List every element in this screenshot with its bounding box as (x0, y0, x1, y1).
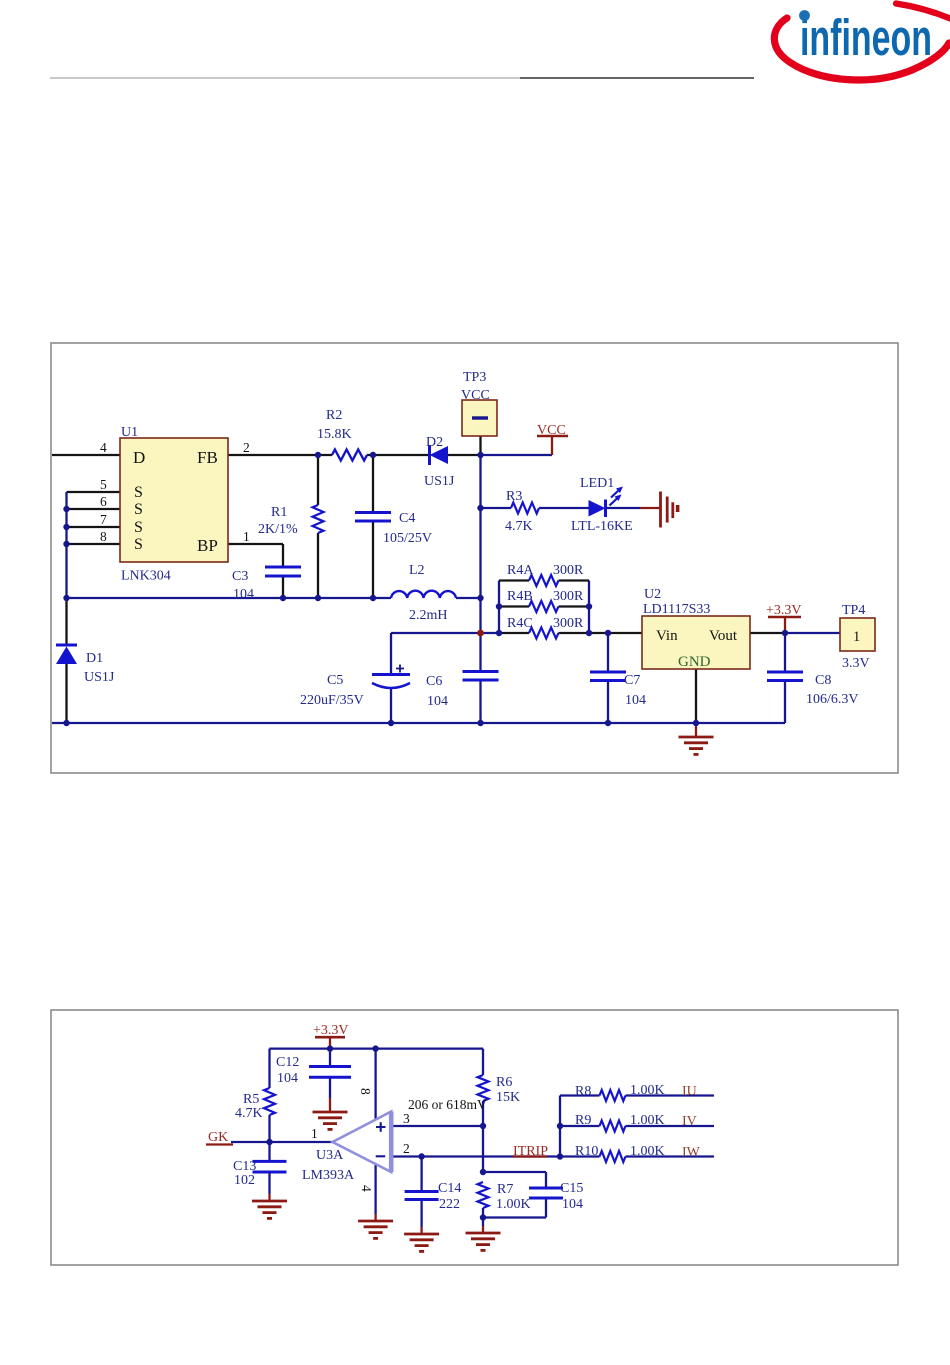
svg-text:R4A: R4A (507, 563, 534, 578)
svg-text:LM393A: LM393A (302, 1168, 355, 1183)
svg-text:1: 1 (243, 529, 250, 544)
svg-text:300R: 300R (553, 589, 584, 604)
svg-text:104: 104 (277, 1071, 298, 1086)
svg-text:8: 8 (100, 529, 107, 544)
svg-text:1.00K: 1.00K (630, 1113, 665, 1128)
svg-text:S: S (134, 536, 143, 553)
svg-text:4: 4 (100, 440, 107, 455)
svg-text:VCC: VCC (537, 423, 566, 438)
svg-text:2: 2 (243, 440, 250, 455)
svg-text:2: 2 (403, 1141, 410, 1156)
svg-text:300R: 300R (553, 563, 584, 578)
svg-text:104: 104 (562, 1197, 583, 1212)
svg-text:+3.3V: +3.3V (766, 603, 802, 618)
svg-text:R8: R8 (575, 1084, 591, 1099)
svg-text:R2: R2 (326, 408, 342, 423)
svg-text:R6: R6 (496, 1075, 512, 1090)
svg-text:S: S (134, 484, 143, 501)
svg-text:2.2mH: 2.2mH (409, 608, 448, 623)
svg-text:2K/1%: 2K/1% (258, 522, 298, 537)
svg-text:220uF/35V: 220uF/35V (300, 693, 364, 708)
svg-text:D1: D1 (86, 651, 103, 666)
svg-text:C5: C5 (327, 673, 343, 688)
svg-text:LED1: LED1 (580, 476, 614, 491)
svg-text:C4: C4 (399, 511, 415, 526)
svg-text:R4B: R4B (507, 589, 533, 604)
svg-text:6: 6 (100, 494, 107, 509)
svg-text:C14: C14 (438, 1181, 461, 1196)
svg-text:1.00K: 1.00K (630, 1144, 665, 1159)
svg-text:222: 222 (439, 1197, 460, 1212)
svg-text:R3: R3 (506, 489, 522, 504)
svg-text:Vin: Vin (656, 628, 678, 644)
svg-text:1: 1 (853, 629, 860, 645)
svg-text:GK: GK (208, 1130, 228, 1145)
svg-text:C15: C15 (560, 1181, 583, 1196)
svg-text:105/25V: 105/25V (383, 531, 432, 546)
svg-text:VCC: VCC (461, 388, 490, 403)
svg-text:104: 104 (625, 693, 646, 708)
svg-text:U2: U2 (644, 587, 661, 602)
svg-text:4.7K: 4.7K (505, 519, 533, 534)
svg-text:D2: D2 (426, 435, 443, 450)
svg-text:infineon: infineon (800, 9, 932, 66)
svg-text:IU: IU (682, 1084, 697, 1099)
svg-text:R10: R10 (575, 1144, 598, 1159)
svg-text:1.00K: 1.00K (496, 1197, 531, 1212)
svg-text:BP: BP (197, 536, 218, 555)
svg-text:Vout: Vout (709, 628, 738, 644)
svg-text:C7: C7 (624, 673, 640, 688)
svg-text:C6: C6 (426, 674, 442, 689)
svg-text:1.00K: 1.00K (630, 1083, 665, 1098)
svg-text:LD1117S33: LD1117S33 (643, 602, 710, 617)
svg-text:GND: GND (678, 654, 711, 670)
svg-text:LTL-16KE: LTL-16KE (571, 519, 633, 534)
svg-text:7: 7 (100, 512, 107, 527)
svg-text:3: 3 (403, 1111, 410, 1126)
svg-text:300R: 300R (553, 616, 584, 631)
svg-text:15.8K: 15.8K (317, 427, 352, 442)
svg-text:102: 102 (234, 1173, 255, 1188)
svg-text:US1J: US1J (424, 474, 455, 489)
svg-text:C12: C12 (276, 1055, 299, 1070)
svg-text:R5: R5 (243, 1092, 259, 1107)
svg-text:15K: 15K (496, 1090, 520, 1105)
svg-text:L2: L2 (409, 563, 425, 578)
svg-text:US1J: US1J (84, 670, 115, 685)
svg-text:C8: C8 (815, 673, 831, 688)
svg-text:ITRIP: ITRIP (513, 1144, 548, 1159)
svg-text:R4C: R4C (507, 616, 533, 631)
svg-text:TP3: TP3 (463, 370, 486, 385)
svg-text:C13: C13 (233, 1159, 256, 1174)
svg-text:C3: C3 (232, 569, 248, 584)
svg-text:TP4: TP4 (842, 603, 865, 618)
svg-text:5: 5 (100, 477, 107, 492)
svg-text:R1: R1 (271, 505, 287, 520)
svg-text:S: S (134, 501, 143, 518)
svg-text:R9: R9 (575, 1113, 591, 1128)
svg-text:3.3V: 3.3V (842, 656, 870, 671)
svg-text:D: D (133, 448, 145, 467)
svg-text:8: 8 (358, 1088, 373, 1095)
svg-text:LNK304: LNK304 (121, 569, 171, 584)
svg-text:IV: IV (682, 1114, 697, 1129)
svg-text:4.7K: 4.7K (235, 1106, 263, 1121)
svg-text:+3.3V: +3.3V (313, 1023, 349, 1038)
svg-text:U1: U1 (121, 425, 138, 440)
svg-text:FB: FB (197, 448, 218, 467)
svg-text:1: 1 (311, 1126, 318, 1141)
svg-text:IW: IW (682, 1145, 701, 1160)
svg-text:206 or 618mV: 206 or 618mV (408, 1097, 487, 1112)
svg-text:R7: R7 (497, 1182, 513, 1197)
svg-text:104: 104 (427, 694, 448, 709)
svg-text:S: S (134, 519, 143, 536)
svg-text:104: 104 (233, 587, 254, 602)
svg-text:U3A: U3A (316, 1148, 344, 1163)
svg-text:4: 4 (359, 1185, 374, 1192)
svg-text:106/6.3V: 106/6.3V (806, 692, 859, 707)
